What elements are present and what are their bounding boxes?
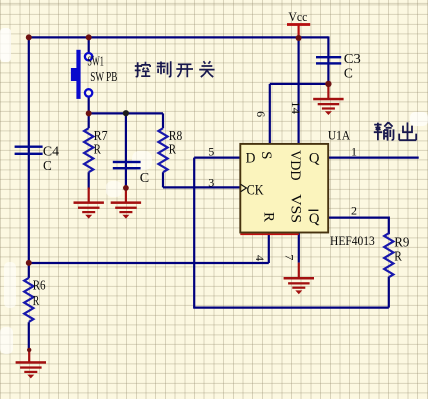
svg-text:CK: CK (247, 182, 264, 198)
wire: switch drop from rail (88, 37, 90, 53)
wire: left vertical lower (C4 to R node) (28, 155, 30, 263)
svg-text:3: 3 (208, 176, 214, 190)
svg-text:U1A: U1A (328, 128, 351, 143)
junction at top-left corner node (26, 34, 32, 40)
svg-text:5: 5 (208, 145, 214, 159)
wire: Qbar pin 2 run (328, 217, 389, 235)
capacitor C4 (15, 144, 60, 174)
svg-text:7: 7 (282, 254, 296, 260)
junction at Vcc node (296, 35, 302, 41)
ground below C3 (313, 84, 343, 115)
wire: Q output pin 1 (328, 157, 419, 159)
wire: C3 drop from rail (327, 36, 329, 57)
wire: pin 4 vertical (268, 232, 270, 263)
svg-text:S: S (258, 151, 274, 159)
svg-text:R: R (94, 141, 101, 156)
wire: R7 bottom lead (88, 172, 90, 189)
svg-text:14: 14 (289, 101, 303, 114)
svg-text:R: R (169, 141, 176, 156)
capacitor C (113, 161, 149, 185)
svg-text:R: R (394, 249, 402, 264)
svg-text:C: C (43, 158, 52, 173)
wire: left vertical upper (rail to C4) (28, 37, 30, 147)
ground below R7 (74, 188, 104, 219)
wire: reset node rail (29, 262, 269, 264)
resistor R7 (84, 128, 108, 172)
ground below R6 (16, 350, 46, 379)
pin name Qbar with overline (308, 210, 319, 227)
junction at C ground dot (123, 185, 129, 191)
wire: switch bottom to debounce node (88, 96, 90, 113)
ground below C (111, 188, 141, 219)
wire: R7 top lead (88, 113, 90, 128)
junction at C3 ground node (325, 81, 331, 87)
junction at switch tap on rail (86, 34, 92, 40)
svg-text:Q: Q (309, 211, 320, 227)
svg-text:C: C (140, 170, 149, 185)
IC U1A HEF4013 body (240, 128, 374, 248)
junction at R6 ground dot (27, 348, 31, 352)
capacitor C3 (316, 51, 361, 81)
wire: S pin rail (270, 83, 329, 85)
svg-text:2: 2 (351, 204, 357, 218)
wire: C3 to ground node (327, 64, 329, 85)
wire: R8 bottom lead (162, 172, 164, 187)
svg-text:4: 4 (253, 255, 267, 261)
svg-text:R: R (33, 293, 40, 308)
wire: feedback bottom run (193, 307, 389, 309)
svg-text:SW PB: SW PB (90, 69, 117, 84)
power Vcc (287, 9, 310, 38)
svg-text:1: 1 (351, 144, 357, 158)
wire: C bottom to ground dot (125, 169, 127, 188)
wire: D feedback vertical (193, 158, 195, 308)
svg-text:Q: Q (309, 150, 320, 166)
wire: pin 6 vertical (269, 84, 271, 145)
ground below VSS pin 7 (284, 263, 314, 295)
label 控制开关 (control switch) (135, 61, 215, 77)
resistor R8 (158, 128, 182, 172)
junction at C branch node (123, 110, 129, 116)
label 输出 (output) (374, 122, 416, 140)
wire: C branch drop (125, 113, 127, 161)
wire: Vcc to VDD pin 14 (298, 37, 300, 144)
wire: R8 top lead (162, 113, 164, 128)
junction at debounce node (86, 110, 92, 116)
svg-text:VSS: VSS (288, 194, 304, 223)
wire: D pin 5 wire (194, 157, 240, 159)
wire: R9 bottom lead (388, 277, 390, 308)
svg-text:C3: C3 (344, 51, 361, 66)
resistor R9 (384, 233, 409, 277)
svg-text:Vcc: Vcc (288, 9, 307, 24)
svg-text:D: D (246, 150, 256, 166)
svg-text:C4: C4 (43, 144, 59, 159)
svg-text:VDD: VDD (287, 150, 303, 181)
svg-text:R9: R9 (394, 235, 409, 250)
switch SW1 (SW-PB) (71, 50, 117, 99)
svg-text:C: C (344, 65, 353, 80)
svg-text:SW1: SW1 (87, 53, 103, 68)
junction at reset node (26, 260, 32, 266)
wire: R6 bottom lead (28, 322, 30, 350)
pin name CK with clock triangle (241, 182, 264, 198)
wire: top Vcc rail (28, 36, 329, 38)
svg-text:HEF4013: HEF4013 (330, 233, 375, 248)
wire: R6 top lead (28, 263, 30, 278)
resistor R6 (24, 277, 46, 322)
svg-text:R6: R6 (33, 277, 46, 292)
wire: CK pin 3 wire (163, 186, 240, 188)
wire: debounce rail to R8 (89, 112, 163, 114)
svg-text:R: R (260, 212, 276, 222)
svg-text:6: 6 (254, 111, 268, 117)
wire: VSS pin 7 vertical (298, 232, 300, 263)
